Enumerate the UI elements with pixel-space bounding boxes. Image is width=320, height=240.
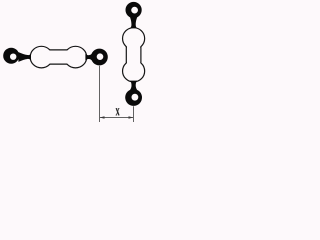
right arrowhead bbox=[129, 116, 134, 119]
right ring (eyelet) bbox=[91, 49, 108, 66]
left arrowhead bbox=[100, 116, 105, 119]
right extension line (below bottom ring of vertical link) bbox=[133, 106, 135, 122]
dimension line bbox=[100, 117, 134, 119]
waist bottom line bbox=[50, 63, 67, 65]
left extension line (from right ring of horizontal link) bbox=[99, 66, 101, 122]
waist top line bbox=[50, 49, 67, 51]
dimension label X bbox=[116, 108, 120, 115]
top tang of vertical link bbox=[130, 17, 137, 28]
waist right line bbox=[140, 47, 142, 63]
bottom ring (eyelet) bbox=[125, 89, 142, 106]
left ring (eyelet) bbox=[3, 48, 19, 64]
left tang of horizontal link bbox=[18, 52, 31, 62]
vertical link bone: top lobe bbox=[123, 28, 145, 50]
horizontal link bone: right lobe bbox=[64, 46, 86, 68]
bottom tang of vertical link bbox=[130, 81, 138, 91]
right tang of horizontal link bbox=[85, 52, 94, 62]
top ring (eyelet) bbox=[126, 2, 142, 18]
waist left line bbox=[125, 47, 127, 63]
vertical link bone: bottom lobe bbox=[123, 60, 145, 82]
horizontal link bone: left lobe bbox=[30, 46, 52, 68]
horizontal bone waist fill bbox=[41, 50, 75, 63]
vertical bone waist fill bbox=[127, 38, 140, 71]
